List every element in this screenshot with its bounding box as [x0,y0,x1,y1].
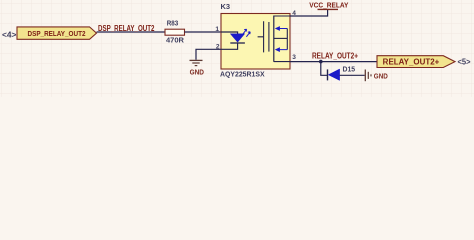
LED emission arrow a [243,29,247,34]
wire port to R83 [97,31,166,33]
port DSP_RELAY_OUT2 [17,27,97,39]
LED triangle [230,34,244,42]
svg-text:1: 1 [215,26,219,33]
wire pin 3 to port [290,61,377,63]
mosfet channel bar [273,16,275,62]
photovoltaic gate rail [258,21,264,52]
mosfet Q-top body arrow [276,27,287,30]
svg-text:GND: GND [374,71,388,80]
resistor R83 [165,19,185,45]
ground GND right (rotated) [365,70,388,82]
port RELAY_OUT2+ [377,56,455,68]
component body [221,14,290,70]
svg-text:AQY225R1SX: AQY225R1SX [220,70,265,79]
svg-text:470R: 470R [166,36,185,45]
shared source stub [274,37,288,39]
ground GND left [190,60,205,76]
svg-text:R83: R83 [167,19,179,28]
svg-text:RELAY_OUT2+: RELAY_OUT2+ [312,51,358,60]
mosfet gate bar [268,22,270,52]
svg-text:<4>: <4> [2,31,17,40]
junction [319,60,323,64]
svg-text:K3: K3 [221,2,231,11]
power VCC_RELAY [309,0,348,9]
mosfet Q-bottom drain stub [274,61,290,63]
LED anode lead [221,32,238,34]
relay K3 AQY225R1SX [215,2,296,79]
LED cathode bar [230,42,245,44]
LED emission arrow b [246,32,250,37]
wire pin 4 to VCC_RELAY [290,10,328,16]
svg-text:VCC_RELAY: VCC_RELAY [309,0,348,9]
svg-text:DSP_RELAY_OUT2: DSP_RELAY_OUT2 [98,24,155,33]
wire diode to ground [340,74,365,76]
wire R83 to K3 pin 1 [185,31,222,33]
mosfet Q-bottom body arrow [276,48,287,51]
body-source tie [286,29,288,50]
wire junction to diode [321,62,327,76]
svg-text:RELAY_OUT2+: RELAY_OUT2+ [383,57,440,66]
svg-text:GND: GND [190,68,204,77]
svg-text:D15: D15 [343,64,356,73]
mosfet Q-top drain stub [274,15,290,17]
svg-text:DSP_RELAY_OUT2: DSP_RELAY_OUT2 [28,29,86,38]
svg-text:<5>: <5> [458,58,471,67]
svg-text:3: 3 [292,54,296,61]
wire pin 2 to ground [196,49,221,60]
diode D15 [328,64,356,80]
LED cathode lead to pin 2 [221,43,238,50]
